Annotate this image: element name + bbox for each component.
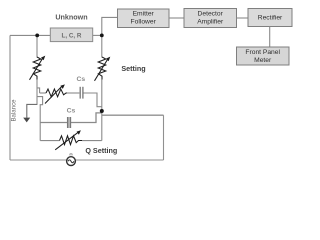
wire right arm upper — [101, 35, 103, 57]
arrowhead q setting resistor — [77, 130, 81, 134]
wire rectifier to front panel meter — [269, 27, 271, 48]
svg-text:Follower: Follower — [131, 19, 157, 26]
wire right loop vertical — [163, 115, 165, 160]
wire top-left to unknown box — [10, 34, 50, 36]
variable resistor left bridge arm — [30, 57, 43, 80]
node dot right of unknown box — [100, 34, 104, 38]
svg-text:Rectifier: Rectifier — [258, 15, 283, 22]
wire lower cap branch left — [40, 122, 67, 124]
capacitor Cs lower plates — [68, 117, 71, 128]
wire upper middle branch left — [40, 92, 46, 94]
wire left arm upper — [36, 35, 38, 57]
capacitor Cs upper plates — [80, 87, 83, 99]
wire bottom rail — [10, 159, 164, 161]
svg-text:Amplifier: Amplifier — [197, 19, 224, 26]
wire detector amplifier to rectifier — [237, 17, 249, 19]
balance wiper arrowhead — [23, 118, 30, 123]
wire right node up to emitter follower — [102, 17, 118, 35]
wire balance tee — [27, 104, 37, 117]
node dot right mid junction — [100, 109, 104, 113]
wire left arm lower — [36, 80, 38, 106]
node dot left of unknown box — [35, 34, 39, 38]
arrowhead balance resistor — [60, 84, 65, 89]
svg-text:Cs: Cs — [67, 108, 76, 115]
svg-text:Balance: Balance — [11, 99, 18, 122]
wire upper middle branch left jog — [37, 88, 40, 93]
variable resistor Q setting (horizontal) — [55, 133, 82, 150]
variable resistor right bridge arm — [95, 57, 108, 81]
wire lower cap branch right — [71, 113, 102, 123]
svg-text:Setting: Setting — [121, 64, 145, 73]
svg-text:Emitter: Emitter — [133, 11, 155, 18]
arrowhead left arm resistor — [41, 56, 45, 61]
wire upper middle branch mid — [67, 92, 79, 94]
rectifier box — [248, 9, 292, 27]
svg-text:Q Setting: Q Setting — [85, 146, 117, 155]
wire upper middle branch right jog — [83, 93, 102, 107]
wire q branch right — [82, 140, 102, 142]
arrowhead right arm resistor — [106, 57, 110, 62]
variable resistor balance (horizontal, upper middle) — [45, 86, 67, 103]
svg-text:Cs: Cs — [76, 76, 85, 83]
svg-text:Meter: Meter — [254, 57, 272, 64]
wire right arm lower — [101, 80, 103, 141]
unknown L,C,R box — [50, 28, 92, 42]
emitter follower box — [118, 9, 170, 28]
svg-text:Detector: Detector — [198, 11, 224, 18]
svg-text:Unknown: Unknown — [55, 12, 87, 21]
detector amplifier box — [184, 9, 237, 28]
front panel meter box — [237, 47, 290, 65]
wire q branch left — [40, 140, 59, 142]
svg-text:Front Panel: Front Panel — [245, 49, 280, 56]
wire left inner staircase jog — [37, 97, 43, 141]
wire output tap — [102, 114, 164, 116]
wire emitter follower to detector amplifier — [169, 17, 184, 19]
oscillator source — [67, 153, 76, 165]
wire left rail — [9, 35, 11, 160]
svg-text:L, C, R: L, C, R — [62, 32, 82, 39]
wire unknown box to right node — [93, 34, 102, 36]
